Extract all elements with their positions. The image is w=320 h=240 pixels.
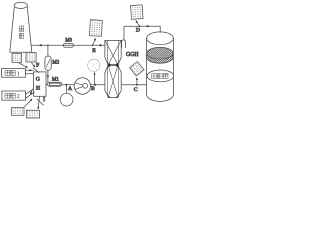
instrument circle above B <box>88 59 100 71</box>
wire: duct GGH to absorber inlet (node C) <box>121 84 146 86</box>
svg-text:M2: M2 <box>52 60 59 65</box>
arrow from box B <box>31 62 35 67</box>
svg-text:H: H <box>36 86 40 92</box>
svg-text:F: F <box>36 62 39 68</box>
CEMS box at D <box>131 5 144 20</box>
svg-text:I: I <box>43 97 45 103</box>
tilted CEMS box at C <box>130 61 144 76</box>
CEMS box B (below chimney) <box>26 52 36 62</box>
damper box <box>34 72 46 96</box>
damper M3 <box>63 43 73 47</box>
wire: duct boiler1 to damper box <box>25 70 33 73</box>
CEMS box at E <box>89 20 102 37</box>
node B <box>91 73 96 92</box>
arrow on boiler1 duct <box>30 69 33 71</box>
damper F flap <box>33 68 39 73</box>
svg-text:C: C <box>134 87 138 93</box>
wire: main flue duct (damper box to GGH) <box>46 84 105 86</box>
svg-text:B: B <box>91 86 95 92</box>
svg-text:1: 1 <box>17 70 20 77</box>
booster fan <box>74 78 90 94</box>
GGH top outlet pipe <box>122 26 126 48</box>
chimney <box>10 2 32 52</box>
node A <box>66 84 74 93</box>
svg-text:M3: M3 <box>65 39 72 44</box>
wire: duct GGH outlet to chimney <box>31 44 105 46</box>
node D <box>136 21 140 34</box>
svg-text:D: D <box>136 28 140 34</box>
arrow on bypass <box>47 75 49 78</box>
boiler1 label 锅炉1 <box>5 70 20 77</box>
node E junction <box>92 38 96 46</box>
svg-text:E: E <box>92 48 96 54</box>
arrow from bottom box to duct <box>24 99 32 107</box>
arrow on chimney duct <box>39 44 42 46</box>
absorber tower <box>147 32 174 101</box>
svg-text:GGH: GGH <box>126 52 139 58</box>
boiler 2 <box>2 91 26 100</box>
damper M2 <box>45 56 51 70</box>
CEMS box (bottom left) <box>12 107 25 115</box>
CEMS box A (below chimney) <box>12 54 22 63</box>
svg-text:2: 2 <box>17 93 20 100</box>
flow meter M1 <box>48 82 62 86</box>
arrow from box A <box>19 63 28 68</box>
svg-text:M1: M1 <box>52 78 59 83</box>
CEMS box (bottom, under damper I) <box>26 110 39 118</box>
wire: bypass duct (chimney line to main duct) <box>47 45 49 85</box>
node C <box>134 78 138 93</box>
node: bypass tee junction <box>47 45 48 46</box>
damper I flap and drain <box>38 96 39 109</box>
svg-text:G: G <box>36 77 40 83</box>
arrow on boiler2 duct <box>30 90 33 95</box>
absorber label ellipse 吸收塔 <box>147 70 174 82</box>
boiler 1 <box>2 68 26 77</box>
GGH heat exchanger <box>105 40 121 98</box>
pump circle below A <box>60 93 73 106</box>
wire: duct absorber top outlet to GGH (via node D) <box>124 26 160 32</box>
wire: duct boiler2 to damper box <box>25 89 34 99</box>
svg-text:A: A <box>68 86 73 92</box>
boiler2 label 锅炉2 <box>5 93 20 100</box>
arrow on absorber outlet duct <box>146 25 149 27</box>
demister / packing layer <box>147 47 173 63</box>
arrow at E side <box>98 44 101 46</box>
chimney label 烟囱 (vertical) <box>19 26 24 38</box>
